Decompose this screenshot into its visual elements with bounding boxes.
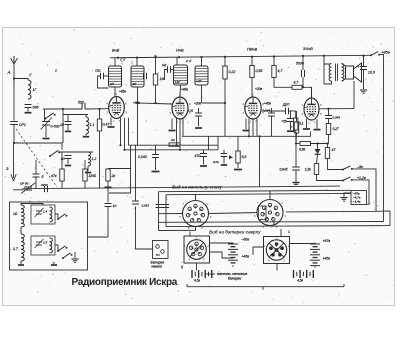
node T1 sec bottom [136,102,138,104]
svg-text:4,7: 4,7 [278,69,284,73]
wire switch to ground1 [53,262,55,264]
capacitor 5000 [301,70,303,77]
switch band S1a [45,118,47,120]
wire legend to ground [344,193,351,197]
svg-text:10: 10 [60,123,64,127]
svg-text:ЗЧчВ: ЗЧчВ [303,46,313,51]
ground bar V1 cathode [108,126,115,128]
node R022 grid tap [224,102,226,104]
node V5 anode tap [327,108,329,110]
svg-text:а,с: а,с [156,253,161,257]
capacitor 10uF electrolytic [360,66,367,68]
ground bar coil L1.1 [83,136,89,138]
capacitor 0.045 low [292,166,300,168]
wire 0.045low top [295,144,297,168]
wire R 0.22 column top [224,57,226,66]
wire cap to T2 [171,69,174,71]
svg-text:0,22: 0,22 [229,70,236,74]
svg-text:2: 2 [207,202,209,206]
svg-text:6: 6 [254,214,256,218]
svg-text:2' 2': 2' 2' [185,59,192,63]
capacitor 10 padder1 [65,121,72,123]
resistor 1.5k [314,164,318,175]
wire T2 secondary bottom [201,85,203,103]
svg-text:2: 2 [54,69,57,73]
capacitor 0.043 [152,154,159,156]
svg-text:–60в: –60в [241,238,250,242]
wire 500cap to V1 grid [85,108,109,110]
svg-text:1Б: 1Б [13,212,18,216]
svg-text:–1,4в: –1,4в [352,200,361,204]
wire R51 down [295,130,297,144]
wire T2 secondary top [201,57,203,66]
svg-text:4: 4 [106,102,108,106]
capacitor 1n [105,203,112,205]
wire V5 cathode gnd a [306,119,308,128]
wire OT primary top feed [324,56,329,64]
wire series R to V5 grid [302,87,312,98]
battery 4.5V filament [192,270,212,278]
svg-text:+85в: +85в [181,88,188,92]
capacitor CB1 across T1 [100,73,102,79]
capacitor 2200 in rail [44,186,46,192]
svg-text:5000: 5000 [296,62,304,66]
wire 0.043 lead [155,145,157,154]
box tab left of socket2 [259,206,267,220]
wire V5 anode right [319,108,354,110]
wire V1 ladder left [158,192,160,231]
wire 0.015 top [135,145,137,201]
resistor 47 [325,148,329,159]
antenna A [13,56,15,64]
socket battery plug top view 2 [266,240,286,260]
wire R15k to switch2 [317,175,344,181]
diode small in chain [229,155,233,159]
svg-text:5,1: 5,1 [299,122,304,126]
wire padder2 to switch [55,245,58,251]
wire variable cap top lead [44,109,46,122]
capacitor 100 at T2 [167,66,169,73]
ground bar 2k [105,186,112,188]
wire diode down [317,155,318,164]
capacitor rungs in ladder [156,204,170,206]
wire T2 primary top [176,57,178,65]
switch box S2c [62,257,64,259]
wire R51 top [295,111,297,118]
wire cap10a lead up [67,115,69,122]
resistor 5.1 [294,118,298,130]
wire rail R1 [159,190,352,191]
svg-text:Вид на батареи сверху: Вид на батареи сверху [209,230,261,235]
wire rail R4 bottom [166,226,390,227]
transformer T2 secondary winding [195,66,208,85]
node 0.045 tap [295,142,297,144]
resistor 0.58 [250,66,254,78]
wire loop right 2k [109,145,131,193]
coil L5 loopstick DV [21,205,24,227]
svg-text:батареи: батареи [228,277,242,281]
wire R47b to switch1 [328,159,344,170]
spokes battery plug 2 [269,243,284,257]
wire V1 pin lead c [128,118,130,145]
wire padder1 to switch [55,214,58,219]
wire V5 top lead [311,87,313,98]
svg-text:10,0: 10,0 [368,71,375,75]
node bus tap R47 [273,55,275,57]
wire V1 pin lead b [124,118,126,150]
coil L2 band2 [88,152,91,166]
svg-text:+45в: +45в [242,255,250,259]
svg-text:10: 10 [61,157,65,161]
switch S-power on +85V rail [370,54,372,56]
svg-text:+85в: +85в [381,50,390,55]
capacitor 0.045 at V5 [325,115,332,117]
svg-text:4: 4 [242,102,244,106]
wire 1n to box [107,207,109,238]
wire R56 gnd [237,163,239,168]
wire socket1 left pin [159,213,183,215]
wire x259 long vertical [259,136,261,187]
wire T1 secondary top [136,58,138,66]
socket battery plug top view 1 [187,240,207,260]
capacitor bypass V3 [268,112,275,114]
svg-text:1: 1 [288,230,290,234]
tube V2 IF amp [172,97,188,119]
node 47 tap [326,142,328,144]
svg-text:0,043: 0,043 [138,155,147,159]
svg-text:1: 1 [250,119,252,123]
ground bar V2 bypass [195,127,202,129]
ground bar 50uF [287,130,294,132]
svg-text:2: 2 [116,92,118,96]
wire V3 cathode gnd [245,119,247,130]
ground bar V3 cathode [243,130,250,132]
ground bar in box [51,264,57,266]
svg-text:2: 2 [281,201,283,205]
resistor 5.6 [236,151,240,163]
wire CB1 left lead [98,76,109,88]
svg-text:СР1: СР1 [19,123,26,127]
wire switch2 to right [352,180,369,204]
svg-text:3: 3 [284,214,286,218]
wire plug1 to stack [210,242,234,244]
svg-text:А: А [7,70,11,75]
capacitor 0.015 feed [132,200,139,202]
svg-text:500: 500 [78,101,84,105]
box voltage legend [351,191,367,205]
svg-text:СВ1: СВ1 [95,69,101,73]
svg-text:2: 2 [252,93,254,97]
wire elbow E to D [217,136,219,150]
svg-text:накала: накала [152,265,163,269]
svg-text:3: 3 [210,215,212,219]
wire box inner mid [20,227,22,234]
capacitor Dr coupling [285,108,287,114]
svg-text:5: 5 [290,125,292,129]
wire R47 down to grid node [274,78,292,88]
node grid leak tap [98,108,100,110]
wire OT primary bottom [324,81,332,84]
svg-text:1н: 1н [113,204,117,208]
ground bar cap10a [65,130,71,132]
node x259 top [258,135,260,137]
svg-text:6: 6 [179,215,181,219]
wire V3 pin lead c [256,119,258,137]
switch band S1b [49,155,51,157]
wire V2 cathode gnd [171,119,173,130]
wire socket2 bottom pin a [265,225,267,227]
svg-text:1.5: 1.5 [43,241,48,245]
capacitor 470 [200,153,207,155]
wire socket2 top pin [269,191,271,200]
switch SA filament -9V [342,169,344,171]
switch box S2b [57,250,59,252]
resistor 2k [106,169,110,181]
wire plug1 bottom to battery [196,263,198,271]
wire filament rail E1 [129,144,219,146]
svg-text:0,045: 0,045 [333,116,341,120]
resistor 0.68 [300,142,311,146]
ground bars 0.045 low [293,182,300,184]
node bus tap R022 [224,56,226,58]
wire V2 bypass cap lead [198,108,200,113]
coil L1.1 padder [86,117,89,134]
ground bar 0.01 [221,164,227,166]
ground bar L2 [85,172,91,174]
resistor 220 [83,169,87,181]
svg-text:ДрП: ДрП [282,103,290,107]
coil L1 antenna [28,80,31,99]
variable capacitor C tuning 0-500 [42,121,50,123]
wire filter cap lead [363,56,365,66]
svg-text:1М: 1М [160,77,165,81]
resistor 0.22 [223,66,227,79]
svg-text:+45в: +45в [323,257,331,261]
wire R027 down [328,135,330,144]
wire coilL11 down [85,134,87,136]
svg-text:3: 3 [170,111,172,115]
svg-text:НД: НД [162,63,167,67]
wire plug2 inner route [253,247,264,255]
svg-text:3: 3 [106,111,108,115]
node bus tap T1b [136,57,138,59]
svg-text:2: 2 [179,93,181,97]
wire switch to ground2 [74,252,76,258]
capacitor 0.01 bypass V2 [195,112,202,114]
node bus tap T1 [117,57,119,59]
speaker Gr1 [346,63,362,82]
wire 5000 column [302,56,304,70]
node antenna bottom junction [13,142,15,144]
wire OT primary left [323,64,325,84]
coil OT secondary [342,64,344,82]
wire 50uF gnd [290,122,292,131]
wire bypass to gnd [198,116,200,127]
svg-text:+: + [358,65,360,69]
wire R 0.22 down [224,79,226,136]
wire battery1 to text [205,273,215,275]
svg-text:+85в: +85в [133,101,140,105]
wire 50uF lead [290,111,292,119]
wire padder feed row [63,114,88,116]
wire anode up to OT [353,81,355,109]
svg-text:4: 4 [276,225,278,229]
svg-text:7: 7 [314,120,316,124]
svg-text:4: 4 [302,103,304,107]
wire T2 primary bottom to V2 anode [179,85,182,97]
wire V3 bypass lead [271,108,273,113]
svg-text:1.7: 1.7 [13,247,19,251]
wire plug1 top feed [189,232,191,237]
wire rail R3 bottom [159,221,384,224]
svg-text:6: 6 [189,102,191,106]
svg-text:НчВ: НчВ [176,48,184,53]
wire cap V5 down [328,119,330,124]
svg-text:Радиоприемник Искра: Радиоприемник Искра [72,277,178,288]
svg-text:антенно- сеточные: антенно- сеточные [217,272,248,276]
ground filter cap [360,89,367,91]
svg-text:47к: 47к [51,174,57,178]
tube V5 output [304,98,319,120]
capacitor 0.01 low [221,153,227,155]
box padder 2 [31,236,55,255]
svg-text:1' 2': 1' 2' [120,58,126,62]
svg-text:220Б: 220Б [88,174,96,178]
wire plug2 bottom to battery [276,264,278,271]
svg-text:6: 6 [320,103,322,107]
wire V5 cathode gnd b [316,119,318,128]
box battery plug 2 [264,237,290,264]
switch SB anode +1.2V [342,180,344,182]
wire plug1 inner route [210,252,234,258]
wire V3 pin lead b [252,119,254,136]
wire 0.01 gnd [223,157,225,164]
wire 220 to rail [84,181,86,189]
svg-text:б: б [181,266,184,270]
node diode tap [316,142,318,144]
svg-text:5,6: 5,6 [242,155,247,159]
node bus tap OT [323,55,325,57]
trimmer in padder2 [36,241,42,243]
wire screen resistor down [155,85,157,103]
svg-text:5: 5 [262,225,264,229]
svg-text:1.1: 1.1 [90,123,95,127]
ground voltage legend [340,197,347,199]
wire L1 cap lower lead [27,108,29,112]
trimmer in padder1 [36,210,42,212]
svg-text:1.4: 1.4 [43,210,48,214]
wire V2 pin lead a [176,118,178,145]
ground bar L6 [18,264,24,266]
svg-text:З: З [6,166,9,171]
node V3a [248,135,250,137]
wire to band switch [14,143,62,150]
wire grid line V2toV3 [202,102,226,104]
svg-text:0,045: 0,045 [280,168,288,172]
svg-text:3: 3 [203,258,205,262]
ground in box [71,258,78,260]
ground bar 470 [200,165,207,167]
ground earth arrow [11,174,14,181]
node screen junction [154,102,156,104]
svg-text:+20в: +20в [255,87,262,91]
wire coilL11 top [85,115,87,118]
wire V1 cathode gnd [110,118,112,126]
wire T1 sec down long [137,103,139,145]
wire V3 bypass to rail D [271,116,273,136]
svg-text:1,5к: 1,5к [305,168,311,172]
wire RleftV5 down [295,133,298,144]
svg-text:3: 3 [283,259,285,263]
wire band2 row [58,151,93,153]
wire OT sec to speaker bottom [342,79,346,81]
wire common rail [13,186,340,190]
wire socket2 bottom pin b [273,222,275,225]
wire R058 to V3 anode [251,78,253,98]
coil OT primary [329,64,331,82]
capacitor CR1 antenna series [10,121,18,123]
wire column x108 [107,168,109,171]
svg-text:0,47: 0,47 [103,123,111,127]
switch box S2a [57,218,59,220]
svg-text:2к: 2к [111,174,116,178]
battery stack GB1 [228,243,238,268]
node V2a [175,144,177,146]
svg-text:4,5в: 4,5в [194,279,200,283]
wire antenna lower lead [13,125,15,144]
wire from power switch to right rail [379,55,383,222]
node V1b on wire B [123,149,125,151]
svg-text:3: 3 [242,111,244,115]
socket tube panel view 2 [257,200,283,226]
wire C left stub [296,143,300,145]
svg-text:47: 47 [332,148,337,152]
wire rail R2 [166,193,351,194]
wire choke right [289,110,296,112]
wire rail E2 [125,149,219,151]
wire column x85 [84,160,86,169]
transformer T2 primary winding [174,65,188,85]
svg-text:–9в: –9в [356,165,363,169]
svg-text:4: 4 [188,258,190,262]
svg-text:+1,2в: +1,2в [357,176,366,180]
wire R058 top [251,57,253,66]
svg-text:5: 5 [320,112,322,116]
resistor 4.7 [272,66,276,78]
wire L6 bottom gnd [20,261,22,264]
svg-text:Л2: Л2 [170,138,175,142]
wire V2 pin lead c [182,118,184,136]
ground bar under variable cap [43,138,50,140]
ground bar V5 a [303,128,310,130]
node 5000 tap [302,86,304,88]
wire 0.045low gnd [295,170,297,182]
wire right vertical x390 [389,211,391,226]
wire box exit right [88,236,109,238]
svg-text:L4Г: L4Г [175,80,180,84]
svg-text:0,27: 0,27 [333,127,339,131]
wire antenna lead down [13,64,15,121]
svg-text:5: 5 [184,244,186,248]
trimmer marks 1' 2' above T1 [121,61,123,65]
svg-text:4: 4 [268,259,270,263]
transformer OT core [335,64,337,82]
transformer T1 primary winding [109,66,122,87]
box filament battery а.с [153,241,169,259]
box padder 1 [31,205,55,224]
scan noise speckles [5,29,394,303]
svg-text:ПВчВ: ПВчВ [247,47,258,52]
